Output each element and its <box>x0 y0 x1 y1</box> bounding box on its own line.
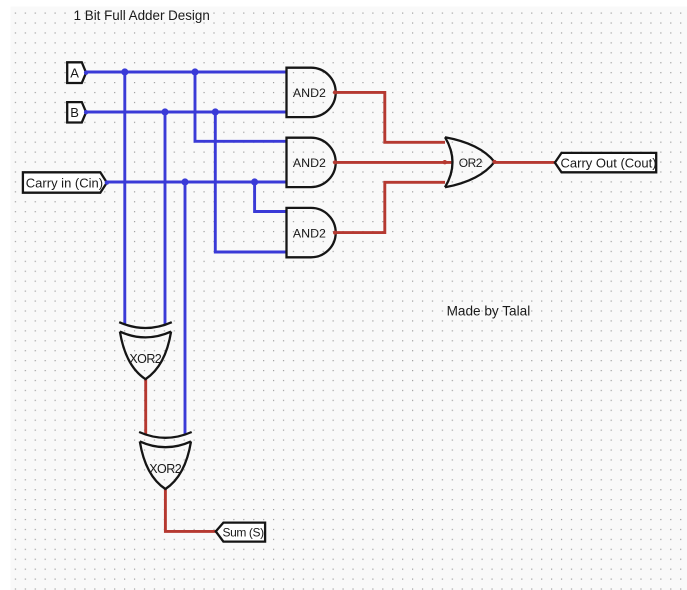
svg-text:Sum (S): Sum (S) <box>223 525 265 539</box>
wire XOR2 output to Sum tag <box>165 489 216 531</box>
wire B to AND2 U3 input b <box>215 112 287 252</box>
junction B-XOR1 <box>161 108 168 115</box>
wire XOR1 output to XOR2 input a <box>144 379 147 435</box>
junction Cin-AND2 U3 <box>251 178 258 185</box>
junction A-AND2 U2 <box>191 68 198 75</box>
wire B to XOR1 input b <box>164 112 167 325</box>
and-gate U1 AND2 <box>287 68 338 117</box>
svg-text:XOR2: XOR2 <box>129 352 161 366</box>
wire OR2 output to Carry Out tag <box>495 161 557 164</box>
wire Cin to AND2 U3 input a <box>255 182 287 212</box>
svg-text:1 Bit Full Adder Design: 1 Bit Full Adder Design <box>74 8 210 23</box>
wire A to XOR1 input a <box>123 72 126 325</box>
svg-text:OR2: OR2 <box>459 156 483 170</box>
input tag Carry in (Cin) <box>23 172 109 192</box>
svg-text:Made by Talal: Made by Talal <box>447 303 531 318</box>
wire Cin horizontal <box>107 181 288 184</box>
svg-text:A: A <box>70 66 79 81</box>
xor-gate U5 XOR2 <box>119 322 172 379</box>
svg-text:Carry in (Cin): Carry in (Cin) <box>26 175 103 190</box>
svg-text:AND2: AND2 <box>293 226 326 240</box>
wire AND2 U1 output to OR2 <box>335 92 446 142</box>
junction A-XOR1 <box>121 68 128 75</box>
wire A horizontal <box>86 71 288 74</box>
svg-text:AND2: AND2 <box>293 86 326 100</box>
wire AND2 U2 output to OR2 <box>335 161 453 164</box>
wire AND2 U3 output to OR2 <box>335 182 446 232</box>
or-gate U4 OR2 <box>443 137 497 187</box>
input tag A <box>67 62 88 83</box>
and-gate U3 AND2 <box>287 208 338 257</box>
wire Cin to XOR2 input b <box>184 182 187 435</box>
svg-text:AND2: AND2 <box>293 156 326 170</box>
and-gate U2 AND2 <box>287 138 338 187</box>
input tag B <box>67 102 88 122</box>
junction B-AND2 U3 <box>212 108 219 115</box>
svg-text:XOR2: XOR2 <box>149 462 181 476</box>
junction Cin-XOR2 <box>181 178 188 185</box>
svg-text:B: B <box>70 105 79 120</box>
output tag Sum (S) <box>216 523 265 542</box>
svg-text:Carry Out (Cout): Carry Out (Cout) <box>561 155 657 170</box>
output tag Carry Out (Cout) <box>555 153 657 172</box>
wire A to AND2 U2 input a <box>195 72 287 141</box>
wire B horizontal <box>86 111 288 114</box>
xor-gate U6 XOR2 <box>139 432 192 489</box>
